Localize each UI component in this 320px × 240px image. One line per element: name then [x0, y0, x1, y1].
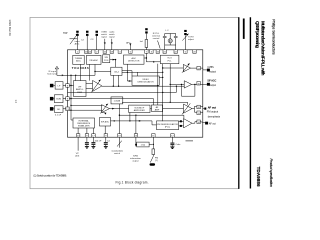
junction dots [157, 85, 158, 86]
wire AGC det to Iref net [144, 57, 146, 59]
op-amp T4 [184, 119, 193, 128]
svg-text:TDA9886: TDA9886 [256, 167, 261, 187]
block TUNER AGC [73, 55, 84, 64]
resistor R1 (Iref) [145, 40, 148, 48]
svg-text:AMPLI-: AMPLI- [76, 88, 84, 91]
svg-text:tuner: tuner [75, 40, 80, 43]
output pin square 2 [207, 83, 210, 86]
T1 output wire [191, 67, 197, 69]
T3 output wires [192, 108, 195, 110]
svg-text:FM DEMODULATOR: FM DEMODULATOR [157, 123, 178, 126]
svg-text:L C: L C [165, 30, 169, 32]
wire tank left [164, 38, 166, 50]
left ext box A [55, 82, 63, 89]
svg-text:Philips Semiconductors: Philips Semiconductors [271, 19, 275, 54]
bus junction dots [70, 75, 71, 76]
op-amp U0 (VIF mixer) [93, 80, 103, 91]
svg-text:from tuner: from tuner [47, 73, 57, 76]
wires box C [53, 108, 54, 110]
cap + ground at pin 8 [86, 137, 88, 142]
figure frame [30, 17, 239, 188]
wire LPF left [95, 70, 111, 72]
svg-text:SIF AGC: SIF AGC [207, 79, 216, 82]
svg-text:BUN: BUN [56, 99, 61, 101]
wire T2 upper input from x170.2 [170, 83, 184, 85]
cap + ground at pin 12 [171, 137, 173, 142]
svg-text:Product specification: Product specification [269, 159, 273, 188]
wire pin 11 down [152, 137, 154, 149]
svg-text:switch: switch [114, 152, 121, 155]
svg-text:DETECTOR: DETECTOR [128, 61, 140, 63]
svg-text:adjust: adjust [188, 38, 194, 41]
left inner bus [69, 75, 102, 120]
wire sound switch arrow [111, 39, 113, 50]
wire T5 to sound demodulator [110, 108, 129, 110]
svg-text:SD: SD [57, 109, 60, 111]
svg-text:POS: POS [104, 60, 109, 62]
tuner AGC pot symbol [70, 34, 78, 45]
op-amp T3 [184, 104, 193, 113]
svg-text:AGC: AGC [75, 42, 80, 45]
standard switch wire [118, 137, 120, 148]
nc dash mark [186, 140, 194, 142]
svg-text:STABILIZER: STABILIZER [78, 124, 90, 127]
switch lever [152, 155, 154, 157]
block REFERENCE [73, 118, 95, 128]
arrowhead sound switch [111, 42, 113, 45]
svg-text:switch: switch [109, 33, 116, 36]
wire Iref resistor top [145, 34, 147, 40]
svg-text:AF out: AF out [209, 123, 216, 126]
capacitor C1 (top, pin 1) [76, 31, 79, 36]
wire top cap 3 [96, 36, 98, 50]
cap + ground at pin 9 [105, 137, 107, 142]
T4 inputs [180, 120, 182, 122]
svg-text:1999 Mar 26: 1999 Mar 26 [8, 19, 12, 36]
bottom pin boxes [76, 134, 174, 138]
left input symbol [55, 66, 58, 69]
block LPF1 [111, 67, 122, 75]
wire y102.3 [122, 101, 188, 103]
svg-text:signal: signal [101, 37, 107, 39]
wire Q to T3 [163, 108, 184, 110]
block VIF AGC [87, 55, 102, 64]
T2 feedback [182, 84, 195, 96]
wire LPF right lower [122, 71, 163, 73]
op-amp T5 (left small) [102, 105, 110, 113]
capacitor C5 (AGC pot) [184, 30, 187, 35]
svg-text:1 kΩ: 1 kΩ [141, 145, 146, 147]
svg-text:(1) Switch position for TDA988: (1) Switch position for TDA9886. [33, 174, 67, 178]
top pin numbers [77, 52, 197, 54]
wire x136 [135, 115, 137, 135]
svg-text:CVBS: CVBS [207, 67, 214, 69]
wire tank right [175, 38, 177, 50]
wire TUNER AGC down [80, 64, 82, 80]
wire SIF AGC down [104, 126, 106, 135]
wires box A [53, 85, 55, 87]
block small AF Q [152, 105, 163, 112]
wires box B [53, 98, 54, 100]
capacitor C2 [86, 31, 89, 36]
svg-text:output: output [210, 84, 217, 87]
svg-text:control: control [153, 37, 160, 40]
left pin square C [50, 107, 54, 111]
svg-text:TDA9886: TDA9886 [72, 66, 89, 70]
wire P down to R wire [129, 113, 131, 121]
svg-text:external: external [152, 35, 160, 38]
T4 output [192, 122, 197, 124]
svg-text:Fig.1 Block diagram.: Fig.1 Block diagram. [116, 181, 149, 185]
wire top cap 1 [76, 36, 78, 50]
cap + ground at pin 17 [92, 137, 94, 142]
AGC pot symbol (right) [182, 34, 188, 41]
svg-text:AGC: AGC [131, 57, 136, 60]
wire into VCO PLL with arrow [148, 61, 160, 63]
long vertical wires [68, 64, 188, 136]
svg-text:AMPLIFIER: AMPLIFIER [134, 109, 145, 112]
svg-text:(5V): (5V) [75, 155, 79, 157]
wire video switch arrow [104, 39, 106, 50]
svg-text:signal: signal [109, 37, 115, 39]
wire y97.6 bus [69, 98, 153, 100]
svg-text:output: output [210, 71, 217, 74]
T2 output wire [192, 83, 197, 85]
block SIF AGC [100, 118, 111, 127]
svg-text:Multistandard vision IF-PLL wi: Multistandard vision IF-PLL with [261, 21, 266, 76]
capacitor C4 (Iref) [145, 28, 148, 33]
svg-text:Iref: Iref [140, 40, 144, 43]
svg-text:TUNER: TUNER [75, 58, 83, 60]
wire x119.8 down [119, 104, 121, 135]
block VIDEO DEMODULATOR [132, 76, 159, 85]
svg-text:14: 14 [14, 100, 18, 104]
svg-text:information: information [130, 157, 142, 160]
svg-text:AGC: AGC [76, 60, 81, 63]
wire PLL external diagonal [158, 41, 161, 49]
T3 gain arrow [182, 103, 190, 114]
wire agc pot cap [184, 35, 186, 49]
svg-text:standard(1): standard(1) [111, 149, 122, 152]
block VCO PLL [160, 55, 179, 64]
block FM DEMODULATOR [157, 121, 179, 130]
svg-text:IF input: IF input [49, 70, 57, 73]
capacitor C3 [96, 31, 99, 36]
svg-text:(1): (1) [155, 160, 158, 162]
svg-text:AMP: AMP [155, 109, 160, 112]
svg-text:VCO: VCO [167, 58, 172, 60]
IC outline TDA9886 [68, 50, 203, 137]
block sound demodulator P [129, 105, 150, 112]
op-amp T2 [184, 81, 191, 88]
info output wire down arrow [135, 137, 137, 146]
section heading BLOCK DIAGRAM (rotated bold) [243, 19, 245, 39]
svg-text:AF out: AF out [208, 106, 216, 110]
wire x157.8 VCO to FM demod [157, 64, 159, 105]
svg-text:FM output: FM output [207, 110, 219, 113]
output pin square 1 [207, 69, 210, 72]
output 4 square [205, 122, 208, 125]
arrowhead AFC [129, 43, 131, 46]
VCO tank circuit [163, 34, 178, 46]
output 3 square [204, 108, 206, 110]
svg-text:switch: switch [101, 33, 108, 36]
svg-text:deemphasis: deemphasis [208, 116, 221, 118]
left pin square B [50, 97, 54, 101]
svg-text:DEMODULATOR: DEMODULATOR [138, 81, 154, 84]
wire LPF right upper [122, 71, 132, 76]
header thick rule (page) [238, 17, 240, 189]
top pin boxes [76, 50, 197, 54]
left ext box B [54, 95, 63, 103]
svg-text:0.1 uF: 0.1 uF [55, 115, 62, 117]
wires VIF amp to U0 [86, 82, 93, 84]
right edge pin boxes [197, 66, 201, 123]
svg-text:output: output [132, 160, 138, 163]
resistor 1k box [137, 142, 149, 147]
switch contact ground [150, 163, 156, 165]
wire AGC det bottom drop [126, 64, 128, 81]
wire gate right, arrow, down into LPF [110, 59, 116, 61]
wire LPF1 down [112, 75, 114, 86]
block AGC2 [111, 97, 123, 104]
block VIF amplifier [74, 81, 87, 97]
wire demod stub to bus [159, 76, 163, 78]
wire input to IC [56, 69, 58, 75]
junction dots on U0 wire [113, 86, 114, 87]
wire to T1 input [163, 67, 184, 69]
REFERENCE box wires down [77, 128, 79, 135]
left ext box C [54, 106, 63, 113]
arrowhead video switch [104, 42, 106, 45]
T1 gain arrow [182, 63, 190, 72]
wire VIF-AGC down [89, 64, 91, 80]
wire P to Q [150, 108, 152, 110]
block gate [103, 55, 110, 63]
wire x162.7 [162, 64, 164, 121]
op-amp T1 [183, 64, 190, 72]
svg-text:CB-4: CB-4 [114, 71, 120, 73]
left pin square A [50, 84, 54, 88]
wire AFC arrow [129, 44, 131, 50]
agc control hook arrow [102, 112, 106, 114]
header rule under title [249, 17, 251, 188]
wire U0 tip to T2 lower input [102, 85, 184, 87]
wire R to FM demod [111, 121, 157, 125]
svg-text:(PLL): (PLL) [165, 127, 171, 129]
svg-text:SIF AGC: SIF AGC [101, 121, 110, 124]
wire x170.2 [169, 64, 171, 103]
svg-text:QSS IF processing: QSS IF processing [255, 21, 260, 48]
supply VP wire [77, 137, 79, 151]
left edge pin boxes [66, 84, 70, 111]
wire Iref resistor bottom [145, 47, 147, 49]
svg-text:TOP: TOP [63, 32, 68, 35]
wire top cap 2 [86, 36, 88, 50]
svg-text:VIF-AGC: VIF-AGC [89, 59, 98, 62]
block AGC DETECTOR [124, 55, 145, 64]
svg-text:1.05dB: 1.05dB [114, 100, 121, 102]
wire y92.4 bus [68, 91, 177, 93]
svg-text:100 nF: 100 nF [95, 141, 102, 143]
resistor R2 vertical [152, 149, 155, 155]
